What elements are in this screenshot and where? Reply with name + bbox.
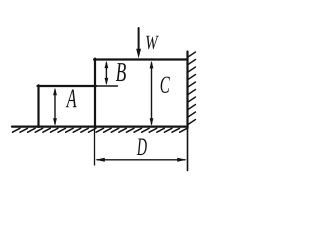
lower block left edge [37,85,39,127]
step vertical edge [94,59,96,127]
arrowhead C bottom [150,118,154,126]
dim arrow B line [105,63,107,83]
label W [146,36,158,49]
arrowhead W [136,49,141,59]
dim D right extension (wall below ground) [187,128,189,171]
label B [116,63,126,81]
dim arrow C line [151,63,153,124]
ground hatching [13,128,188,132]
dim D line [97,159,185,161]
arrowhead B bottom [105,78,109,85]
arrowhead A bottom [53,118,57,126]
wall hatching [188,52,196,125]
dim arrow A line [54,90,56,124]
arrowhead A top [53,88,57,96]
arrowhead C top [150,61,154,69]
dim D left extension [94,129,96,165]
arrowhead D left [95,158,105,162]
B extension line [96,85,118,87]
arrowhead B top [105,61,109,68]
arrowhead D right [177,158,187,162]
label C [161,77,170,93]
wall line [186,52,188,129]
top surface of tall block [94,58,188,60]
lower block top [38,85,97,87]
label A [66,90,77,108]
ground line [12,125,188,127]
force arrow W line [138,28,140,53]
label D [137,139,147,156]
